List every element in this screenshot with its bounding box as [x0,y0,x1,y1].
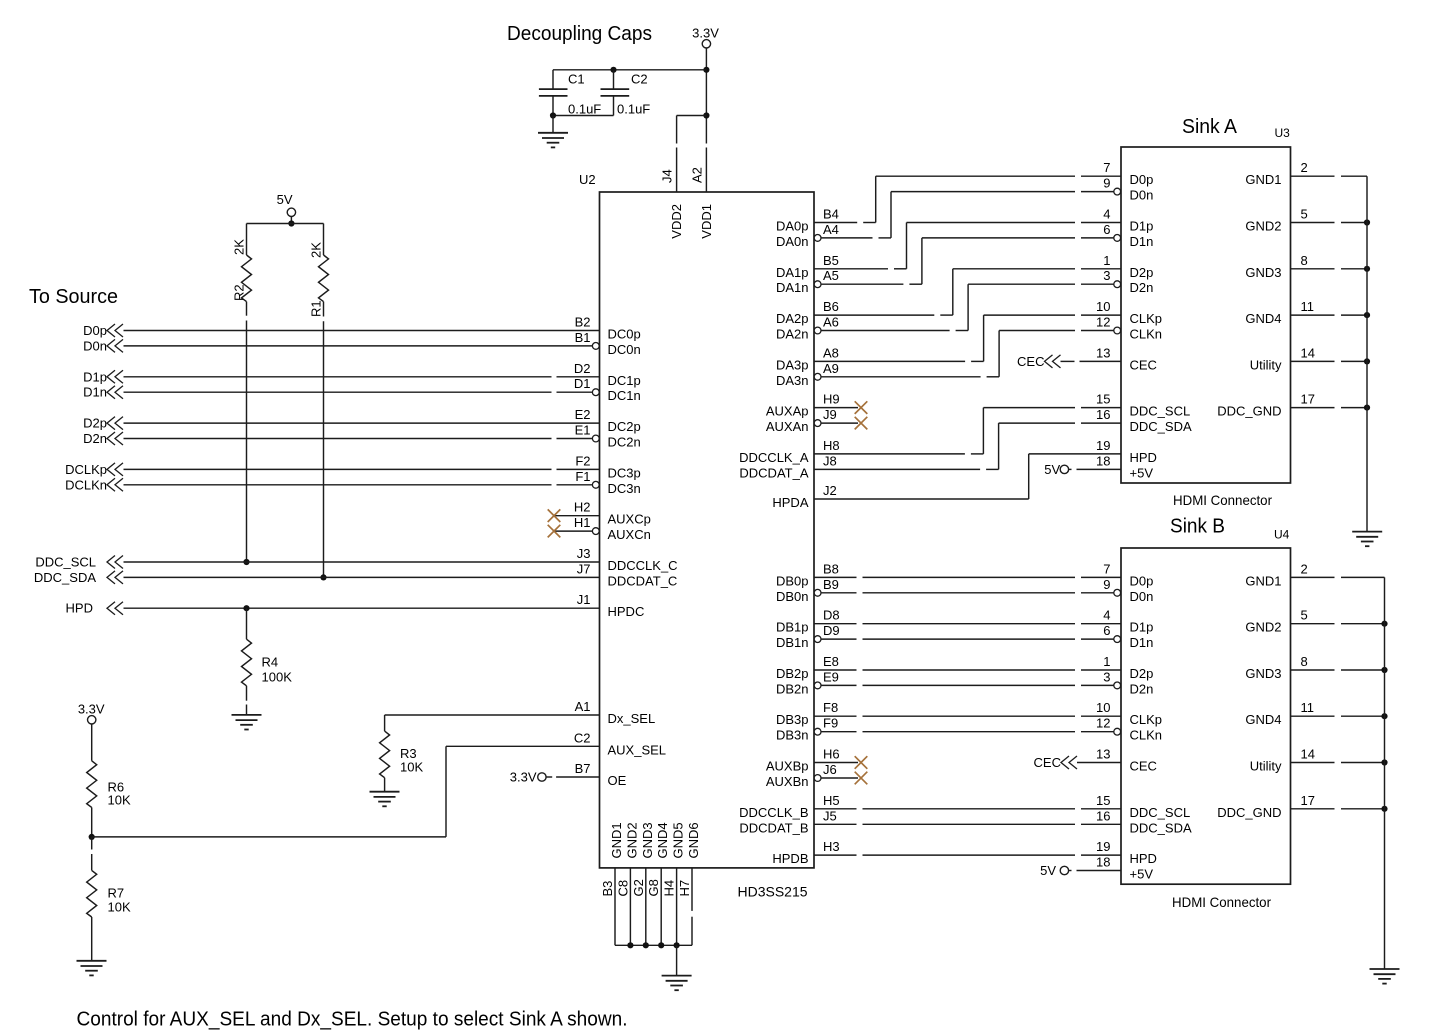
svg-text:Utility: Utility [1250,357,1282,372]
svg-text:HPD: HPD [1130,851,1157,866]
svg-text:D8: D8 [823,608,840,623]
svg-text:E1: E1 [575,423,591,438]
svg-text:5V: 5V [277,192,293,207]
svg-text:B4: B4 [823,207,839,222]
svg-text:10K: 10K [108,793,131,808]
svg-text:10: 10 [1096,700,1110,715]
svg-text:DDC_GND: DDC_GND [1217,805,1281,820]
svg-text:A6: A6 [823,315,839,330]
svg-text:CEC: CEC [1130,759,1157,774]
svg-text:J7: J7 [577,561,591,576]
svg-text:6: 6 [1103,222,1110,237]
svg-text:DB1p: DB1p [776,620,809,635]
svg-text:D1p: D1p [1130,219,1154,234]
svg-text:DC0p: DC0p [608,327,641,342]
svg-text:16: 16 [1096,808,1110,823]
svg-text:D0n: D0n [1130,188,1154,203]
svg-text:R1: R1 [309,300,324,317]
svg-text:H7: H7 [677,880,692,897]
svg-text:DB2p: DB2p [776,666,809,681]
svg-text:B9: B9 [823,577,839,592]
svg-text:VDD1: VDD1 [699,204,714,239]
svg-text:8: 8 [1301,253,1308,268]
svg-text:AUXBn: AUXBn [766,774,809,789]
svg-text:17: 17 [1301,392,1315,407]
svg-text:DA3n: DA3n [776,373,809,388]
svg-text:DC3p: DC3p [608,465,641,480]
svg-text:3.3V: 3.3V [510,770,537,785]
svg-text:DA1n: DA1n [776,280,809,295]
svg-text:DB2n: DB2n [776,681,809,696]
svg-text:B5: B5 [823,253,839,268]
svg-text:7: 7 [1103,160,1110,175]
svg-text:U3: U3 [1275,126,1291,140]
svg-text:10K: 10K [400,760,423,775]
svg-text:D0n: D0n [83,338,107,353]
svg-text:GND6: GND6 [686,822,701,858]
svg-text:15: 15 [1096,793,1110,808]
svg-text:D2n: D2n [83,431,107,446]
svg-text:U2: U2 [579,172,596,187]
svg-text:GND4: GND4 [1245,712,1281,727]
svg-text:D2n: D2n [1130,681,1154,696]
svg-text:G8: G8 [646,879,661,896]
svg-text:HPDC: HPDC [608,604,645,619]
svg-text:H2: H2 [574,500,591,515]
svg-text:B8: B8 [823,561,839,576]
svg-text:C2: C2 [631,72,648,87]
svg-text:A9: A9 [823,361,839,376]
svg-text:DC2n: DC2n [608,435,641,450]
svg-text:18: 18 [1096,453,1110,468]
svg-text:J4: J4 [660,169,675,183]
svg-text:+5V: +5V [1130,465,1154,480]
svg-text:VDD2: VDD2 [669,204,684,239]
svg-text:9: 9 [1103,176,1110,191]
svg-text:B3: B3 [600,881,615,897]
svg-text:H9: H9 [823,392,840,407]
svg-text:12: 12 [1096,315,1110,330]
svg-text:B6: B6 [823,299,839,314]
svg-text:F1: F1 [575,469,590,484]
svg-text:13: 13 [1096,345,1110,360]
svg-text:D9: D9 [823,623,840,638]
svg-text:F9: F9 [823,716,838,731]
svg-text:5: 5 [1301,608,1308,623]
svg-text:2K: 2K [309,242,324,258]
svg-text:DA1p: DA1p [776,265,809,280]
svg-text:DA0n: DA0n [776,234,809,249]
svg-text:J8: J8 [823,453,837,468]
svg-text:DDCDAT_C: DDCDAT_C [608,573,678,588]
svg-text:AUXAp: AUXAp [766,404,809,419]
svg-text:0.1uF: 0.1uF [617,102,650,117]
svg-text:H5: H5 [823,793,840,808]
svg-text:E8: E8 [823,654,839,669]
svg-text:DDCCLK_B: DDCCLK_B [739,805,808,820]
svg-text:GND2: GND2 [1245,219,1281,234]
svg-text:DA0p: DA0p [776,219,809,234]
svg-text:Control for AUX_SEL and Dx_SEL: Control for AUX_SEL and Dx_SEL. Setup to… [77,1009,628,1031]
svg-text:19: 19 [1096,438,1110,453]
svg-text:7: 7 [1103,561,1110,576]
svg-text:B1: B1 [575,330,591,345]
svg-text:R4: R4 [262,655,279,670]
svg-text:2: 2 [1301,561,1308,576]
svg-text:DB0p: DB0p [776,573,809,588]
svg-text:DC3n: DC3n [608,481,641,496]
svg-text:AUXAn: AUXAn [766,419,809,434]
svg-text:GND5: GND5 [671,822,686,858]
svg-text:DDC_SDA: DDC_SDA [1130,820,1192,835]
svg-text:4: 4 [1103,207,1110,222]
svg-text:A8: A8 [823,345,839,360]
svg-text:CEC: CEC [1017,354,1044,369]
svg-text:DC1n: DC1n [608,388,641,403]
svg-text:1: 1 [1103,253,1110,268]
svg-text:3.3V: 3.3V [78,702,105,717]
svg-text:A5: A5 [823,268,839,283]
svg-text:GND4: GND4 [655,822,670,858]
svg-text:DCLKp: DCLKp [65,462,107,477]
svg-text:D2p: D2p [1130,265,1154,280]
svg-text:Sink B: Sink B [1170,516,1225,538]
svg-text:GND3: GND3 [640,822,655,858]
svg-text:9: 9 [1103,577,1110,592]
svg-text:D2: D2 [574,361,591,376]
svg-text:DC1p: DC1p [608,373,641,388]
svg-text:12: 12 [1096,716,1110,731]
svg-text:11: 11 [1301,700,1315,715]
svg-text:DDC_SCL: DDC_SCL [35,555,96,570]
svg-text:DDC_GND: DDC_GND [1217,404,1281,419]
svg-text:8: 8 [1301,654,1308,669]
svg-text:5V: 5V [1044,462,1060,477]
svg-text:J9: J9 [823,407,837,422]
svg-text:GND2: GND2 [1245,620,1281,635]
svg-text:10K: 10K [108,900,131,915]
svg-text:J6: J6 [823,762,837,777]
svg-text:DCLKn: DCLKn [65,477,107,492]
svg-text:DB3n: DB3n [776,728,809,743]
svg-text:D0n: D0n [1130,589,1154,604]
svg-text:14: 14 [1301,747,1315,762]
svg-text:11: 11 [1301,299,1315,314]
svg-text:J3: J3 [577,546,591,561]
svg-text:C1: C1 [568,72,585,87]
svg-text:D1n: D1n [1130,635,1154,650]
svg-text:D2p: D2p [83,416,107,431]
svg-text:DDC_SDA: DDC_SDA [1130,419,1192,434]
svg-text:R7: R7 [108,886,125,901]
svg-text:To Source: To Source [29,286,118,308]
svg-text:2: 2 [1301,160,1308,175]
svg-text:HPD: HPD [66,601,93,616]
svg-text:J2: J2 [823,483,837,498]
svg-text:D2p: D2p [1130,666,1154,681]
svg-text:AUXCp: AUXCp [608,512,651,527]
svg-text:DB0n: DB0n [776,589,809,604]
svg-text:D0p: D0p [83,323,107,338]
svg-text:D0p: D0p [1130,573,1154,588]
svg-text:4: 4 [1103,608,1110,623]
svg-text:E9: E9 [823,669,839,684]
svg-text:J1: J1 [577,592,591,607]
svg-text:DDC_SCL: DDC_SCL [1130,404,1191,419]
svg-text:3.3V: 3.3V [692,26,719,41]
svg-text:G2: G2 [631,879,646,896]
svg-text:Utility: Utility [1250,759,1282,774]
svg-text:HPD: HPD [1130,450,1157,465]
svg-text:D1: D1 [574,376,591,391]
svg-text:DDC_SDA: DDC_SDA [34,570,96,585]
svg-text:100K: 100K [262,670,293,685]
svg-text:D1n: D1n [1130,234,1154,249]
svg-text:DA3p: DA3p [776,357,809,372]
svg-text:D1p: D1p [83,369,107,384]
svg-text:AUXCn: AUXCn [608,527,651,542]
svg-text:B2: B2 [575,315,591,330]
svg-text:H6: H6 [823,747,840,762]
svg-text:GND1: GND1 [1245,172,1281,187]
svg-text:DA2p: DA2p [776,311,809,326]
svg-text:5V: 5V [1040,863,1056,878]
svg-text:DDCDAT_A: DDCDAT_A [739,465,808,480]
svg-text:CEC: CEC [1130,357,1157,372]
svg-text:19: 19 [1096,839,1110,854]
svg-text:OE: OE [608,773,627,788]
svg-text:Decoupling Caps: Decoupling Caps [507,23,652,45]
svg-text:C8: C8 [615,880,630,897]
svg-text:HDMI Connector: HDMI Connector [1172,894,1271,910]
svg-text:13: 13 [1096,747,1110,762]
svg-text:GND2: GND2 [624,822,639,858]
svg-text:D1n: D1n [83,385,107,400]
svg-text:CEC: CEC [1034,755,1061,770]
svg-text:DA2n: DA2n [776,327,809,342]
svg-text:E2: E2 [575,407,591,422]
svg-text:DC2p: DC2p [608,419,641,434]
svg-text:15: 15 [1096,392,1110,407]
svg-text:CLKp: CLKp [1130,311,1163,326]
svg-text:18: 18 [1096,855,1110,870]
svg-text:HD3SS215: HD3SS215 [738,884,808,900]
svg-text:HPDA: HPDA [772,495,808,510]
svg-text:6: 6 [1103,623,1110,638]
svg-text:J5: J5 [823,808,837,823]
svg-text:DDCDAT_B: DDCDAT_B [739,820,808,835]
svg-text:H4: H4 [662,880,677,897]
svg-text:H1: H1 [574,515,591,530]
svg-text:U4: U4 [1274,528,1290,542]
svg-text:DDCCLK_C: DDCCLK_C [608,558,678,573]
svg-text:2K: 2K [232,239,247,255]
svg-text:A4: A4 [823,222,839,237]
svg-text:AUX_SEL: AUX_SEL [608,742,667,757]
svg-text:DDC_SCL: DDC_SCL [1130,805,1191,820]
svg-text:HDMI Connector: HDMI Connector [1173,492,1272,508]
svg-text:GND4: GND4 [1245,311,1281,326]
svg-text:10: 10 [1096,299,1110,314]
svg-text:3: 3 [1103,268,1110,283]
svg-text:5: 5 [1301,207,1308,222]
svg-text:GND3: GND3 [1245,666,1281,681]
svg-text:AUXBp: AUXBp [766,759,809,774]
svg-text:Dx_SEL: Dx_SEL [608,711,656,726]
svg-text:DB1n: DB1n [776,635,809,650]
svg-text:R2: R2 [232,284,247,301]
svg-text:A1: A1 [575,699,591,714]
svg-text:17: 17 [1301,793,1315,808]
svg-text:DB3p: DB3p [776,712,809,727]
svg-text:GND1: GND1 [609,822,624,858]
svg-text:3: 3 [1103,669,1110,684]
svg-text:GND3: GND3 [1245,265,1281,280]
svg-text:DDCCLK_A: DDCCLK_A [739,450,809,465]
svg-text:D2n: D2n [1130,280,1154,295]
svg-text:16: 16 [1096,407,1110,422]
svg-text:CLKp: CLKp [1130,712,1163,727]
svg-text:H3: H3 [823,839,840,854]
svg-text:C2: C2 [574,730,591,745]
svg-text:DC0n: DC0n [608,342,641,357]
svg-text:+5V: +5V [1130,867,1154,882]
svg-text:1: 1 [1103,654,1110,669]
svg-text:Sink A: Sink A [1182,116,1238,138]
svg-text:F2: F2 [575,453,590,468]
svg-text:CLKn: CLKn [1130,327,1163,342]
svg-text:D1p: D1p [1130,620,1154,635]
svg-text:14: 14 [1301,345,1315,360]
svg-text:HPDB: HPDB [772,851,808,866]
svg-text:GND1: GND1 [1245,573,1281,588]
svg-text:0.1uF: 0.1uF [568,102,601,117]
svg-text:F8: F8 [823,700,838,715]
svg-text:A2: A2 [689,167,704,183]
svg-text:B7: B7 [575,761,591,776]
svg-text:H8: H8 [823,438,840,453]
svg-text:CLKn: CLKn [1130,728,1163,743]
svg-text:D0p: D0p [1130,172,1154,187]
